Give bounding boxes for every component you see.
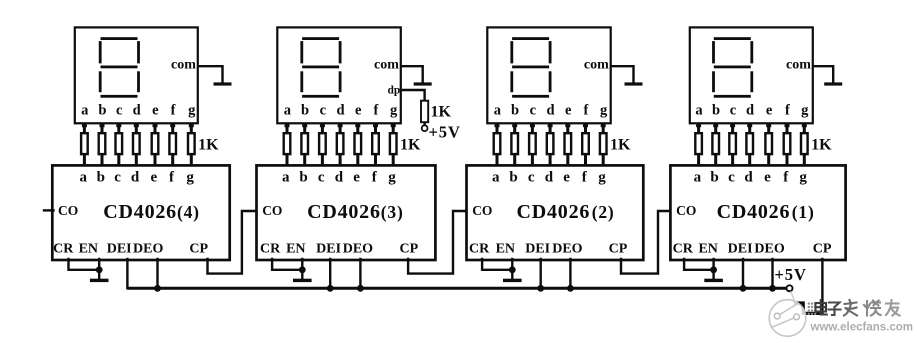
pin label EN (U2): [496, 241, 515, 256]
svg-text:e: e: [766, 103, 773, 119]
svg-text:c: c: [730, 103, 737, 119]
svg-text:a: a: [494, 103, 502, 119]
svg-text:e: e: [150, 170, 157, 186]
digit figure 8 (DS2): [510, 37, 551, 98]
junction DEO-bus (U1): [769, 285, 776, 292]
pin label CO (U1): [676, 203, 696, 218]
svg-text:CO: CO: [472, 203, 492, 218]
resistor R2c: [529, 123, 536, 165]
svg-text:1K: 1K: [610, 136, 631, 153]
svg-text:g: g: [388, 170, 396, 186]
pin label CO (U3): [262, 203, 282, 218]
wire CR to EN (U1): [684, 259, 714, 270]
svg-text:CD4026(4): CD4026(4): [103, 201, 200, 223]
svg-text:d: d: [131, 170, 140, 186]
svg-text:c: c: [528, 170, 535, 186]
junction DEI-bus (U2): [537, 285, 544, 292]
svg-text:CO: CO: [58, 203, 78, 218]
junction CR/EN (U4): [96, 266, 103, 273]
svg-text:d: d: [545, 170, 554, 186]
resistor R3d: [337, 123, 344, 165]
chip pin labels a-g (U4): [79, 170, 194, 186]
chip pin labels a-g (U1): [694, 170, 808, 186]
label CD4026(3) (U3): [307, 201, 404, 223]
svg-text:f: f: [583, 103, 588, 119]
resistor R2g: [600, 123, 607, 165]
junction DEO-bus (U3): [357, 285, 364, 292]
svg-text:c: c: [114, 170, 121, 186]
svg-text:1K: 1K: [400, 136, 421, 153]
digit figure 8 (DS3): [300, 37, 341, 98]
svg-text:CP: CP: [399, 241, 418, 256]
7-segment display DS1: [690, 27, 813, 123]
label CD4026(4) (U4): [103, 201, 200, 223]
svg-text:c: c: [320, 103, 327, 119]
ground (com of DS4): [214, 82, 232, 85]
wire com of DS1 to ground: [815, 66, 834, 82]
pin label CP (U4): [189, 241, 208, 256]
svg-text:b: b: [301, 103, 309, 119]
svg-text:DEO: DEO: [754, 241, 784, 256]
svg-text:DEI: DEI: [316, 241, 341, 256]
pin label CR (U1): [673, 241, 694, 256]
svg-text:e: e: [563, 170, 570, 186]
wire DEO to bus (U2): [569, 259, 571, 288]
resistor R1g: [801, 123, 808, 165]
junction CR/EN (U1): [710, 266, 717, 273]
resistor R3f: [372, 123, 379, 165]
svg-text:c: c: [318, 170, 325, 186]
resistor R2e: [565, 123, 572, 165]
resistor R1e: [765, 123, 772, 165]
junction DEO-bus (U2): [567, 285, 574, 292]
wire CR to EN (U3): [272, 259, 302, 270]
terminal +5V (bus): [787, 285, 793, 291]
wire com of DS4 to ground: [200, 66, 223, 82]
digit figure 8 (DS4): [99, 37, 140, 98]
svg-text:a: a: [492, 170, 500, 186]
ground (com of DS3): [414, 82, 432, 85]
pin label DEO (U1): [754, 241, 784, 256]
pin label DEO (U3): [343, 241, 373, 256]
pin label CO (U2): [472, 203, 492, 218]
svg-text:d: d: [744, 170, 753, 186]
7-segment display DS4: [75, 27, 198, 123]
IC U3 CD4026(3): [257, 165, 436, 260]
label +5V (dp): [429, 123, 461, 142]
pin label com (DS4): [171, 58, 196, 73]
wire com of DS3 to ground: [403, 66, 423, 82]
resistor R2a: [494, 123, 501, 165]
pin label EN (U1): [698, 241, 717, 256]
svg-text:DEO: DEO: [552, 241, 582, 256]
value label 1K (segment resistors, block 1): [811, 136, 832, 153]
wire EN down (U1): [712, 259, 714, 280]
wire EN down (U4): [98, 259, 100, 280]
svg-text:d: d: [335, 170, 344, 186]
svg-text:a: a: [284, 103, 292, 119]
resistor R4e: [152, 123, 159, 165]
svg-text:1K: 1K: [811, 136, 832, 153]
resistor R1d: [746, 123, 753, 165]
chip pin labels a-g (U2): [492, 170, 606, 186]
resistor 1K (dp pull-up): [421, 101, 428, 123]
svg-text:a: a: [694, 170, 702, 186]
value label 1K (segment resistors, block 4): [198, 136, 219, 153]
pin label CR (U4): [53, 241, 74, 256]
wire EN down (U3): [301, 259, 303, 280]
wire CR to EN (U2): [482, 259, 512, 270]
pin label DEO (U2): [552, 241, 582, 256]
value label 1K (segment resistors, block 2): [610, 136, 631, 153]
wire EN down (U2): [511, 259, 513, 280]
7-segment display DS2: [487, 27, 610, 123]
svg-text:c: c: [116, 103, 123, 119]
display pin labels a-g (DS3): [284, 103, 398, 119]
pin label EN (U3): [286, 241, 305, 256]
pin label DEI (U4): [107, 241, 132, 256]
resistor R1a: [695, 123, 702, 165]
svg-text:b: b: [710, 170, 718, 186]
value label 1K (segment resistors, block 3): [400, 136, 421, 153]
pin label DEI (U3): [316, 241, 341, 256]
resistor R4d: [133, 123, 140, 165]
digit figure 8 (DS1): [712, 37, 753, 98]
junction DEI-bus (U1): [740, 285, 747, 292]
wire CP of U1 down to switch: [821, 259, 823, 313]
pin label CR (U2): [469, 241, 490, 256]
pin label CR (U3): [260, 241, 281, 256]
svg-text:com: com: [786, 58, 811, 73]
wire DEO to bus (U4): [156, 259, 158, 288]
svg-text:a: a: [282, 170, 290, 186]
svg-text:a: a: [695, 103, 703, 119]
svg-text:CP: CP: [189, 241, 208, 256]
watermark (decorative): [769, 291, 913, 336]
svg-text:1K: 1K: [198, 136, 219, 153]
wire DEO to bus (U1): [771, 259, 773, 288]
wire DEO to bus (U3): [359, 259, 361, 288]
svg-text:www.elecfans.com: www.elecfans.com: [810, 322, 913, 334]
svg-text:DEO: DEO: [133, 241, 163, 256]
bus wire DEI/DEO tie to +5V: [127, 287, 786, 290]
svg-text:CD4026(2): CD4026(2): [517, 201, 615, 223]
wire DEI to bus (U2): [540, 259, 542, 288]
ground (com of DS1): [824, 82, 842, 85]
pin label DEI (U1): [728, 241, 753, 256]
junction CR/EN (U3): [299, 266, 306, 273]
svg-text:EN: EN: [286, 241, 305, 256]
svg-text:+5V: +5V: [429, 123, 461, 142]
pin label EN (U4): [79, 241, 98, 256]
svg-text:CO: CO: [262, 203, 282, 218]
pin label CP (U1): [813, 241, 832, 256]
ground (com of DS2): [625, 82, 643, 85]
wire DEI to bus (U4): [126, 259, 128, 288]
svg-text:+5V: +5V: [775, 265, 807, 284]
svg-text:com: com: [584, 58, 609, 73]
svg-text:f: f: [373, 103, 378, 119]
svg-text:e: e: [764, 170, 771, 186]
svg-text:EN: EN: [79, 241, 98, 256]
display pin labels a-g (DS2): [494, 103, 608, 119]
IC U4 CD4026(4): [52, 165, 229, 260]
pin label com (DS1): [786, 58, 811, 73]
wire switch to CP line: [794, 303, 822, 313]
svg-text:e: e: [353, 170, 360, 186]
svg-text:c: c: [530, 103, 537, 119]
svg-text:CR: CR: [469, 241, 490, 256]
wire com of DS2 to ground: [612, 66, 633, 82]
resistor R3b: [301, 123, 308, 165]
display pin labels a-g (DS4): [81, 103, 196, 119]
pin label DEI (U2): [525, 241, 550, 256]
svg-text:dp: dp: [388, 85, 401, 97]
junction CR/EN (U2): [509, 266, 516, 273]
ground (CR/EN of U1): [704, 279, 723, 282]
resistor R3g: [390, 123, 397, 165]
svg-text:EN: EN: [496, 241, 515, 256]
pin label com (DS3): [374, 58, 399, 73]
resistor R1f: [784, 123, 791, 165]
7-segment display DS3: [277, 27, 401, 123]
resistor R3e: [355, 123, 362, 165]
resistor R3c: [319, 123, 326, 165]
chip pin labels a-g (U3): [282, 170, 396, 186]
resistor R2b: [511, 123, 518, 165]
svg-text:b: b: [97, 170, 105, 186]
IC U1 CD4026(1): [670, 165, 845, 260]
svg-text:CD4026(3): CD4026(3): [307, 201, 404, 223]
wire CR to EN (U4): [69, 259, 100, 270]
svg-text:DEO: DEO: [343, 241, 373, 256]
pin label com (DS2): [584, 58, 609, 73]
wire resistor to +5V terminal: [423, 123, 425, 125]
pin label CO (U4): [58, 203, 78, 218]
svg-text:CP: CP: [813, 241, 832, 256]
svg-text:e: e: [565, 103, 572, 119]
label CD4026(1) (U1): [717, 201, 815, 223]
svg-text:com: com: [171, 58, 196, 73]
svg-text:b: b: [299, 170, 307, 186]
resistor R4b: [99, 123, 106, 165]
svg-text:g: g: [801, 103, 809, 119]
resistor R2f: [582, 123, 589, 165]
svg-text:g: g: [600, 103, 608, 119]
junction DEI-bus (U3): [327, 285, 334, 292]
svg-text:b: b: [509, 170, 517, 186]
wire CO of U3 to CP of U4: [208, 211, 257, 274]
resistor R4g: [188, 123, 195, 165]
wire DEI to bus (U3): [329, 259, 331, 288]
label CD4026(2) (U2): [517, 201, 615, 223]
svg-text:g: g: [598, 170, 606, 186]
svg-text:DEI: DEI: [525, 241, 550, 256]
wire DEI to bus (U1): [742, 259, 744, 288]
ground (CR/EN of U2): [503, 279, 522, 282]
svg-text:c: c: [728, 170, 735, 186]
wire CO of U1 to CP of U2: [621, 211, 670, 274]
label +5V (bus): [775, 265, 807, 284]
resistor R4c: [116, 123, 123, 165]
svg-text:g: g: [390, 103, 398, 119]
pin label CP (U2): [609, 241, 628, 256]
svg-text:d: d: [336, 103, 344, 119]
resistor R2d: [547, 123, 554, 165]
svg-text:e: e: [152, 103, 159, 119]
terminal +5V (dp): [422, 125, 428, 131]
stub wire CO (U4): [44, 209, 54, 211]
junction DEO-bus (U4): [154, 285, 161, 292]
svg-text:g: g: [799, 170, 807, 186]
value label 1K (dp resistor): [431, 104, 452, 121]
svg-text:g: g: [186, 170, 194, 186]
svg-text:f: f: [785, 103, 790, 119]
resistor R4a: [81, 123, 88, 165]
display pin labels a-g (DS1): [695, 103, 809, 119]
svg-text:b: b: [511, 103, 519, 119]
svg-text:CD4026(1): CD4026(1): [717, 201, 815, 223]
svg-text:CO: CO: [676, 203, 696, 218]
svg-text:g: g: [188, 103, 196, 119]
pin label dp (DS3): [388, 85, 401, 97]
svg-text:CP: CP: [609, 241, 628, 256]
ground (CR/EN of U4): [90, 279, 109, 282]
pin label CP (U3): [399, 241, 418, 256]
svg-text:b: b: [712, 103, 720, 119]
ground (CR/EN of U3): [293, 279, 312, 282]
svg-text:e: e: [355, 103, 362, 119]
svg-text:d: d: [546, 103, 554, 119]
svg-text:CR: CR: [260, 241, 281, 256]
svg-text:a: a: [79, 170, 87, 186]
wire dp of DS3 to resistor: [403, 90, 425, 100]
IC U2 CD4026(2): [467, 165, 644, 260]
wire CO of U2 to CP of U3: [408, 211, 466, 274]
svg-text:DEI: DEI: [107, 241, 132, 256]
svg-text:d: d: [133, 103, 141, 119]
svg-text:EN: EN: [698, 241, 717, 256]
resistor R3a: [284, 123, 291, 165]
svg-text:1K: 1K: [431, 104, 452, 121]
svg-text:DEI: DEI: [728, 241, 753, 256]
svg-text:CR: CR: [673, 241, 694, 256]
pin label DEO (U4): [133, 241, 163, 256]
svg-text:f: f: [171, 103, 176, 119]
resistor R4f: [169, 123, 176, 165]
svg-text:b: b: [98, 103, 106, 119]
svg-text:a: a: [81, 103, 89, 119]
svg-text:d: d: [746, 103, 754, 119]
svg-text:CR: CR: [53, 241, 74, 256]
svg-text:com: com: [374, 58, 399, 73]
resistor R1b: [712, 123, 719, 165]
resistor R1c: [729, 123, 736, 165]
